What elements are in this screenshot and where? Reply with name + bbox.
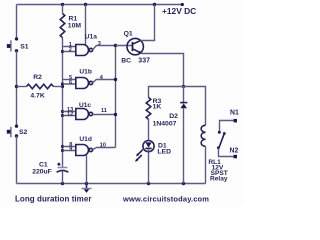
op-amp U1d (NAND gate) (63, 145, 116, 156)
node input-rail dot R2 (61, 85, 64, 88)
relay contact N1 terminal (234, 119, 238, 123)
node top rail junction at R1 (61, 3, 64, 6)
relay contact N2 terminal (234, 155, 238, 159)
svg-text:6: 6 (69, 80, 72, 86)
node S1/R2 junction (15, 85, 18, 88)
capacitor C1 220uF (57, 163, 69, 184)
node emitter branch junction (182, 85, 185, 88)
wire Q1 emitter run (142, 54, 184, 87)
node blade pivot (217, 146, 220, 149)
switch S2 (7, 125, 18, 138)
node input-rail dot U1c pin12 (61, 114, 64, 117)
svg-text:R2: R2 (33, 74, 42, 81)
wire branch to relay (184, 87, 206, 126)
svg-text:D2: D2 (169, 113, 178, 120)
svg-text:2: 2 (69, 47, 72, 53)
node N1 contact (218, 131, 221, 134)
svg-text:10: 10 (100, 143, 106, 149)
svg-text:U1d: U1d (79, 136, 91, 143)
resistor R2 4.7K (horizontal) (17, 86, 27, 88)
LED D1 (135, 141, 154, 184)
svg-text:www.circuitstoday.com: www.circuitstoday.com (122, 194, 209, 203)
node input-rail dot U1b pin6 (61, 82, 64, 85)
svg-text:Q1: Q1 (124, 31, 133, 38)
wire S1 bottom to R2 junction (16, 51, 18, 126)
node output bus at U1c (114, 113, 117, 116)
svg-text:1K: 1K (153, 104, 162, 111)
svg-text:10M: 10M (68, 22, 82, 29)
node LED at ground rail (147, 182, 150, 185)
wire contact blade (219, 134, 224, 147)
svg-text:N1: N1 (230, 110, 239, 117)
svg-text:BC: BC (121, 58, 131, 65)
svg-text:+12V DC: +12V DC (162, 6, 196, 16)
svg-text:S2: S2 (19, 129, 28, 136)
op-amp U1b (NAND gate) (63, 78, 116, 89)
op-amp U1a (NAND gate) (63, 45, 116, 56)
wire N2 (219, 148, 234, 157)
svg-text:1N4007: 1N4007 (153, 121, 177, 128)
svg-text:Relay: Relay (210, 176, 228, 183)
wire Q1 collector to +12V (141, 5, 155, 41)
node input-rail dot U1c pin13 (61, 110, 64, 113)
transistor Q1 BC337 (127, 38, 143, 54)
node top rail junction at U1a VDD (84, 3, 87, 6)
node D2 at ground rail (182, 182, 185, 185)
node blade tip (223, 132, 226, 135)
wire N1 (220, 121, 234, 132)
node +12V terminal dot (181, 3, 184, 6)
svg-text:4.7K: 4.7K (30, 93, 44, 100)
node output bus at U1b (114, 78, 117, 81)
svg-text:337: 337 (138, 58, 150, 65)
wire U1d ground stub (86, 155, 88, 184)
node C1 at ground rail (61, 182, 64, 185)
svg-text:U1c: U1c (79, 102, 91, 109)
svg-text:Long duration timer: Long duration timer (15, 194, 92, 203)
inductor RL1 relay coil (201, 125, 205, 146)
wire gate output bus (vertical) (115, 46, 117, 148)
resistor R3 1K (vertical) (146, 97, 151, 119)
switch S1 (7, 37, 18, 52)
resistor R1 10M (vertical) (62, 5, 64, 14)
node input-rail dot U1d pin9 (61, 149, 64, 152)
svg-text:U1b: U1b (79, 68, 91, 75)
wire Q1 base (116, 45, 132, 47)
svg-text:12: 12 (67, 112, 73, 118)
wire U1a VDD stub (85, 5, 87, 46)
node top rail junction at Q1 collector (153, 3, 156, 6)
wire top +12V rail (17, 4, 183, 6)
svg-text:C1: C1 (39, 161, 48, 168)
svg-text:11: 11 (101, 108, 107, 114)
svg-text:9: 9 (69, 147, 72, 153)
ground symbol (82, 184, 92, 193)
svg-text:S1: S1 (20, 43, 29, 50)
svg-text:LED: LED (157, 148, 171, 155)
node output bus at U1a/base (114, 44, 117, 47)
wire bottom ground rail (17, 183, 206, 185)
svg-text:N2: N2 (230, 147, 239, 154)
diode D2 1N4007 (180, 87, 187, 184)
node input-rail dot U1a pin2 (61, 50, 64, 53)
wire left column top (S1 feed) (16, 5, 18, 39)
wire S2 bottom to ground rail (16, 136, 18, 184)
wire branch to R3 (149, 87, 184, 98)
op-amp U1c (NAND gate) (63, 109, 116, 120)
svg-text:U1a: U1a (85, 34, 97, 41)
node U1d gnd at ground rail (85, 182, 88, 185)
node input-rail dot U1d pin8 (61, 145, 64, 148)
svg-text:220uF: 220uF (32, 169, 52, 176)
svg-text:3: 3 (98, 41, 101, 47)
